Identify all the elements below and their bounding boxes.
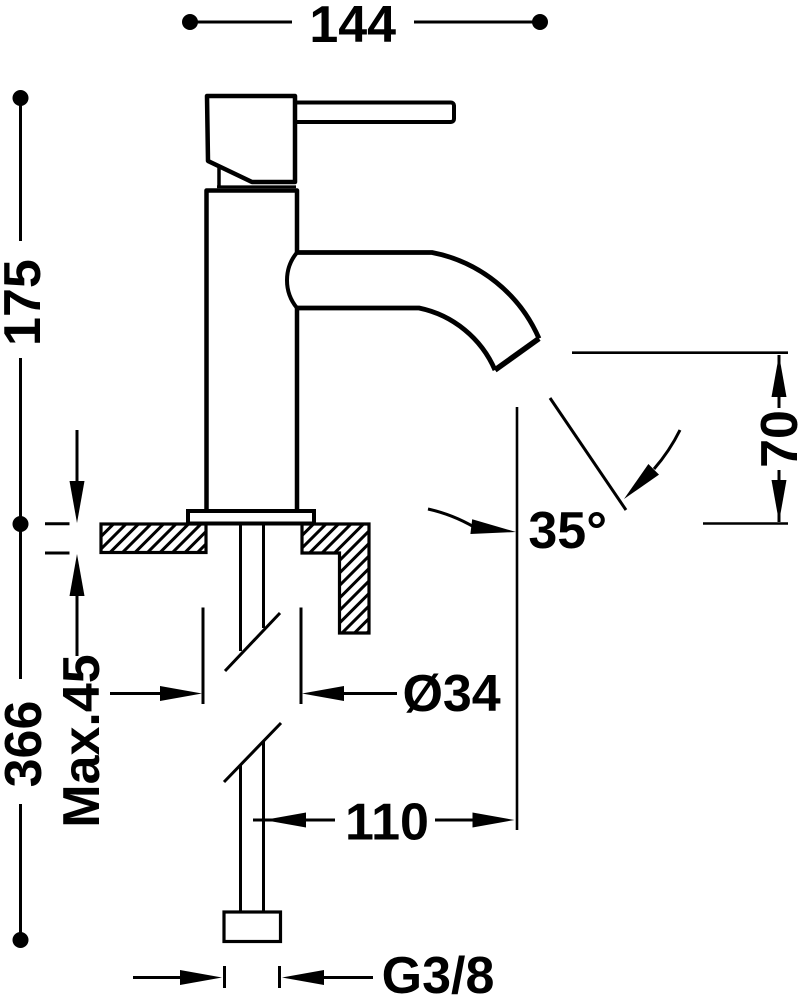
supply pipe upper left line <box>239 524 242 652</box>
dim G3/8 right line <box>320 976 373 979</box>
dim 70 up arrowhead <box>772 355 787 397</box>
dim 110 right arrowhead <box>473 813 515 828</box>
dim Max.45 up arrow line <box>76 590 79 656</box>
dim O34 ext line right <box>300 608 303 705</box>
base flange <box>188 511 314 524</box>
svg-text:144: 144 <box>309 0 396 54</box>
dim O34 right arrowhead <box>302 686 344 701</box>
spout left cap arc <box>287 253 297 309</box>
dim G3/8 left tick <box>223 966 226 988</box>
dim 175 line lower <box>19 358 22 519</box>
svg-text:Ø34: Ø34 <box>402 665 500 723</box>
dim Max.45 dash upper <box>45 522 70 525</box>
dim 175 dot top <box>13 90 29 106</box>
supply pipe upper right line <box>262 524 265 629</box>
dim Max.45 down arrow line <box>76 430 79 488</box>
dim 70 down arrowhead <box>772 480 787 522</box>
dim 110 left tail line <box>253 819 335 822</box>
dim Max.45 up arrowhead <box>70 554 85 596</box>
svg-text:Max.45: Max.45 <box>53 654 111 827</box>
svg-text:70: 70 <box>751 410 801 468</box>
countertop right section <box>302 524 369 633</box>
svg-text:366: 366 <box>0 701 53 788</box>
dim 70 lower line <box>778 470 781 522</box>
angle arc left arrowhead <box>470 519 516 534</box>
dim 110 left arrowhead <box>264 813 306 828</box>
inlet fitting <box>224 912 281 942</box>
outlet vertical ext line <box>516 407 519 830</box>
dim 175 line upper <box>19 103 22 241</box>
body column <box>207 191 298 514</box>
dim 70 upper line <box>778 355 781 408</box>
supply pipe lower right line <box>262 741 265 912</box>
dim 144 dot left <box>182 14 198 30</box>
dim G3/8 left line <box>133 976 185 979</box>
dim G3/8 right arrowhead <box>282 970 324 985</box>
svg-text:G3/8: G3/8 <box>382 947 495 1000</box>
dim O34 ext line left <box>202 608 205 705</box>
angle curved arrow arc <box>654 430 680 469</box>
pipe break diagonal upper <box>225 613 280 671</box>
dim 144 dot right <box>532 14 548 30</box>
dim O34 left arrowhead <box>160 686 202 701</box>
dim 366 line lower <box>19 804 22 935</box>
dim shared dot middle <box>13 516 29 532</box>
lever bar <box>290 103 454 123</box>
stream direction line <box>550 398 626 510</box>
svg-text:175: 175 <box>0 259 52 346</box>
dim O34 right leader <box>340 692 397 695</box>
svg-text:110: 110 <box>345 794 429 852</box>
handle head <box>207 96 295 182</box>
dim 366 dot bottom <box>13 932 29 948</box>
outlet horizontal ext line <box>572 351 788 354</box>
spout bottom edge <box>297 308 495 370</box>
dim 110 right line <box>435 819 479 822</box>
dim 144 line right <box>414 21 535 24</box>
cartridge collar left edge <box>217 167 221 188</box>
spout top edge <box>297 253 539 339</box>
angle curved arrowhead <box>624 464 659 499</box>
dim 366 line upper <box>19 529 22 679</box>
dim Max.45 dash lower <box>45 552 70 555</box>
dim G3/8 right tick <box>278 966 281 988</box>
cartridge collar top line <box>217 185 296 188</box>
angle arc left <box>428 509 474 527</box>
counter level ref line <box>703 522 788 525</box>
supply pipe lower left line <box>239 765 242 912</box>
dim Max.45 down arrowhead <box>70 481 85 523</box>
dim O34 left leader <box>110 692 166 695</box>
countertop left section <box>101 524 206 553</box>
pipe break diagonal lower <box>224 723 281 782</box>
dim G3/8 left arrowhead <box>180 970 222 985</box>
svg-text:35°: 35° <box>528 502 607 560</box>
dim 144 line left <box>195 21 292 24</box>
spout mouth <box>495 339 539 371</box>
